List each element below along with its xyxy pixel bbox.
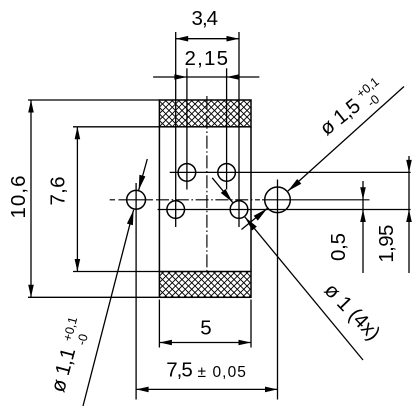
body: left side wall bbox=[158, 127, 160, 272]
dimension 7,5 ± 0,05 (bottom, holes A-F spacing) bbox=[136, 388, 277, 390]
vertical centre line bbox=[206, 96, 208, 272]
column centreline of hole A (extension to 7,5 dim) bbox=[135, 183, 137, 400]
hole D (d=1) bbox=[218, 164, 236, 182]
body: bottom hatched flange bbox=[159, 272, 251, 298]
leader d=1,5 to hole F bbox=[288, 87, 404, 192]
row line through holes B and D (extension to 1,95 dim) bbox=[170, 171, 411, 173]
dimension 10,6 (left, overall height) bbox=[28, 99, 159, 101]
svg-text:7,6: 7,6 bbox=[46, 177, 69, 206]
hole A (d=1,1) bbox=[127, 190, 146, 209]
svg-text:2,15: 2,15 bbox=[185, 47, 229, 70]
body: top hatched flange bbox=[159, 100, 251, 127]
hole F (d=1,5) bbox=[265, 187, 291, 213]
row line through holes C and E (extension to 0,5 / 1,95 dims) bbox=[158, 209, 411, 211]
dimension 7,6 (left, flange inner spacing) bbox=[73, 126, 159, 128]
horizontal centre line (axis through A and F) bbox=[110, 199, 115, 201]
dimension 1,95 (right, row offset) bbox=[408, 156, 410, 273]
dimension 5 (bottom, body width) bbox=[158, 300, 160, 348]
column line of hole F (extension to 7,5 dim) bbox=[277, 180, 279, 400]
svg-text:1,95: 1,95 bbox=[375, 225, 398, 263]
label d 1 (4x) bbox=[320, 279, 385, 345]
svg-text:5: 5 bbox=[200, 316, 211, 339]
hole E (d=1) bbox=[230, 201, 248, 219]
column line through hole B (extension to 2,15 dim) bbox=[186, 68, 188, 189]
svg-text:3,4: 3,4 bbox=[192, 7, 219, 30]
dimension 2,15 (top, holes B-D spacing) bbox=[153, 76, 259, 78]
leader d=1,1 to hole A bbox=[83, 210, 134, 406]
leader d=1 (4x) to hole E bbox=[245, 217, 363, 360]
label d 1,1 +0,1/-0 bbox=[46, 315, 94, 396]
dimension 0,5 (right, row offset) bbox=[362, 181, 364, 273]
hole C (d=1) bbox=[167, 201, 185, 219]
label d 1,5 +0,1/-0 bbox=[314, 75, 390, 143]
column line through hole D (extension to 2,15 dim) bbox=[226, 68, 228, 189]
svg-text:0,5: 0,5 bbox=[327, 233, 350, 261]
body: right side wall bbox=[250, 127, 252, 272]
dimension 3,4 (top, holes C-E spacing) bbox=[176, 38, 239, 40]
svg-text:± 0,05: ± 0,05 bbox=[198, 364, 246, 381]
column line through hole E (extension to 3,4 dim) bbox=[238, 32, 240, 227]
column line through hole C (extension to 3,4 dim) bbox=[175, 32, 177, 227]
svg-text:10,6: 10,6 bbox=[7, 176, 30, 219]
hole B (d=1) bbox=[178, 164, 196, 182]
svg-text:7,5: 7,5 bbox=[166, 359, 193, 382]
